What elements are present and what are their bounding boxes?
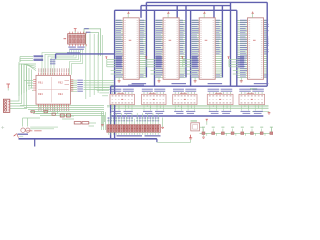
bus vertical right of B: [185, 6, 187, 78]
IC U3 left pin wires: [155, 20, 163, 22]
wire small parts cluster wires: [30, 111, 60, 113]
VCC small symbol above row: [206, 119, 208, 121]
IC U9 body: [207, 94, 233, 104]
wire verticals into bottom connector: [101, 112, 103, 130]
svg-text:FB4: FB4: [58, 93, 63, 96]
wire LED row line: [200, 132, 272, 134]
IC U9 designator text top: [215, 92, 222, 95]
IC U9 top pin wires: [209, 92, 211, 94]
IC U2 green stub pre-gnd: [111, 70, 116, 72]
IC U4 right pin wires: [215, 20, 222, 22]
IC U2 pin numbers right: [137, 19, 139, 22]
bus drop A: [140, 6, 142, 18]
bus vertical right of C: [221, 6, 223, 78]
IC U7 designator text top: [149, 92, 156, 95]
IC U2 pin numbers left: [124, 19, 126, 22]
IC U2 box: [123, 18, 139, 80]
IC U5 pin numbers right: [261, 19, 263, 22]
IC U3 labels left: [156, 19, 162, 22]
wire vertical bundle center: [85, 33, 87, 99]
net labels cluster top-left: [34, 55, 44, 57]
IC U8 top pin wires: [174, 92, 176, 94]
IC U3 power cluster lower-left: [145, 57, 147, 59]
IC U4 bold label block: [192, 56, 198, 57]
bus bottom: [19, 138, 157, 140]
IC U5 power cluster lower-left: [228, 57, 230, 59]
wire U1 bottom to lower area: [39, 107, 41, 110]
bus vertical group C: [190, 10, 192, 86]
GND left of connector: [101, 115, 103, 125]
ground right end of rails: [268, 111, 270, 114]
IC U4 green stub pre-gnd: [187, 70, 192, 72]
LED D1: [202, 132, 205, 135]
IC U5 pin numbers left: [249, 19, 251, 22]
green rails below middle IC row: [107, 104, 269, 106]
IC U3 labels right: [180, 19, 183, 22]
wire left horizontals to U1 left pins: [24, 80, 33, 82]
IC U7 body: [142, 94, 167, 104]
bus name label on alpha: [67, 52, 80, 53]
wires right of crystal: [30, 126, 58, 128]
wire bundle turns to middle IC row: [94, 87, 109, 89]
IC U6 pin numbers: [112, 95, 114, 98]
IC U3 designator mark: [169, 40, 172, 41]
IC U2 GND symbol bottom: [118, 77, 120, 81]
crystal Q1: [21, 128, 25, 132]
IC U5 GND symbol bottom: [240, 77, 242, 81]
IC U5 labels right: [264, 19, 268, 22]
wire k1 to row: [200, 126, 204, 128]
IC U1 right pin net labels: [77, 80, 83, 81]
resistor R2: [82, 122, 89, 124]
IC U6 top pin wires: [112, 92, 114, 94]
IC U8 body: [173, 94, 197, 104]
IC U4 labels right: [216, 19, 220, 22]
IC U4 power cluster lower-left: [181, 57, 183, 59]
IC U9 pin numbers: [209, 95, 211, 98]
IC U7 pin numbers: [143, 95, 145, 98]
crystal value text red: [26, 130, 32, 131]
LED D8: [270, 132, 273, 135]
IC U3 GND symbol bottom: [158, 77, 160, 81]
IC U1 top pins: [38, 73, 40, 76]
bus alpha end labels: [50, 59, 55, 60]
IC U10 labels below: [241, 111, 251, 112]
supply symbol left: [7, 84, 9, 88]
IC U5 bold label block: [238, 56, 244, 57]
IC U8 labels above: [173, 89, 184, 90]
LED D2: [212, 132, 215, 135]
IC U3 pin numbers right: [177, 19, 179, 22]
IC U2 labels right: [140, 19, 144, 22]
IC U5 value text below: [254, 83, 268, 84]
IC U3 box: [163, 18, 179, 80]
IC U2 labels left: [116, 19, 122, 22]
IC U9 labels above: [208, 89, 220, 90]
svg-text:FB3: FB3: [38, 93, 43, 96]
connector X1 cells top row: [108, 125, 110, 128]
IC U8 designator dot: [184, 99, 186, 100]
LED D5: [241, 132, 244, 135]
IC U1 right pins: [71, 79, 74, 81]
IC U3 bold label block: [156, 56, 162, 57]
IC U10 body: [239, 94, 265, 104]
IC U1 top pin labels: [37, 68, 40, 72]
IC U2 value text below: [132, 83, 147, 84]
IC U5 green stub pre-gnd: [233, 70, 238, 72]
LED D3: [221, 132, 224, 135]
connector X1 body: [107, 125, 161, 133]
capacitor cluster C1 C2: [60, 114, 64, 117]
LED D4: [231, 132, 234, 135]
small parts top cluster: [31, 111, 34, 113]
IC U1 bottom pin labels: [37, 107, 40, 111]
IC U5 designator mark: [253, 40, 256, 41]
relay K1 body: [191, 123, 200, 131]
wire J1 to bundle: [10, 64, 36, 101]
IC U5 labels left: [240, 19, 247, 22]
IC U7 labels below: [143, 111, 152, 112]
IC U4 value text below: [208, 83, 223, 84]
IC U8 designator text top: [180, 92, 187, 95]
IC U5 box: [248, 18, 264, 80]
IC U6 body: [110, 94, 135, 104]
green label under gamma right: [250, 88, 257, 90]
IC U1 body: [36, 75, 71, 104]
bus bottom stub down mid: [34, 139, 36, 147]
IC U7 designator dot: [153, 99, 155, 100]
IC U10 designator dot: [251, 99, 253, 100]
bus vertical group B: [154, 10, 156, 86]
IC U4 VCC symbol top: [203, 14, 205, 18]
IC U7 bottom pin wires: [143, 104, 145, 107]
IC U4 pin numbers left: [200, 19, 202, 22]
IC U10 designator text top: [247, 92, 254, 95]
bus vertical right of D: [266, 2, 268, 86]
net labels right of S1: [84, 28, 89, 29]
IC U9 designator dot: [219, 99, 221, 100]
dip switch S1 pins bottom: [69, 44, 71, 46]
bus drop B: [176, 6, 178, 18]
bus top line 0: [146, 1, 267, 3]
bus drop C: [213, 6, 215, 18]
wire left bundle verticals: [18, 62, 20, 96]
wire VCC to S1 top: [74, 31, 76, 33]
power flag bottom left: [13, 133, 16, 136]
dip switch S1 designator: [64, 38, 67, 39]
bus bottom end stub: [156, 139, 158, 142]
wire U1 right labels to bus area: [84, 80, 114, 82]
IC U1 left pins: [33, 79, 36, 81]
IC U6 designator dot: [121, 99, 123, 100]
connector X1 labels above: [108, 117, 110, 119]
IC U7 labels above: [142, 89, 153, 90]
ground at wire end: [190, 135, 192, 138]
relay K1 label: [191, 120, 198, 121]
bus gamma name label: [128, 85, 144, 86]
IC U10 bottom pin wires: [241, 104, 243, 107]
bus vertical right of A: [145, 2, 147, 77]
IC U8 pin numbers: [174, 95, 176, 98]
IC U7 top pin wires: [143, 92, 145, 94]
LED D7: [260, 132, 263, 135]
IC U1 interior right pin names: [65, 79, 70, 82]
dip switch S1 labels below: [68, 47, 76, 48]
power symbol above S1: [74, 29, 76, 32]
net label bottom left: [18, 134, 29, 135]
IC U10 pin numbers: [241, 95, 243, 98]
wire net from S1 area to right, upper: [84, 29, 101, 56]
IC U5 right pin wires: [264, 20, 267, 22]
wire LED row right riser: [271, 127, 273, 133]
IC U10 labels above: [239, 89, 251, 90]
dip switch S1 body: [68, 34, 86, 44]
IC U3 VCC symbol top: [167, 14, 169, 18]
bus top line 1: [141, 5, 231, 7]
IC U4 labels left: [192, 19, 198, 22]
IC U3 pin numbers left: [164, 19, 166, 22]
bus horizontal delta: [111, 115, 264, 117]
connector X1 cells bottom row: [108, 129, 110, 132]
GND right of connector: [162, 118, 164, 128]
connector X1 labels below: [117, 135, 143, 136]
IC U4 box: [199, 18, 215, 80]
wire cluster to blue labels top-left: [20, 56, 33, 58]
IC U10 top pin wires: [241, 92, 243, 94]
svg-text:FB1: FB1: [38, 81, 43, 84]
IC U6 labels below: [112, 111, 121, 112]
IC U3 green stub pre-gnd: [151, 70, 156, 72]
bus horizontal gamma: [111, 85, 268, 87]
bus alpha left drop: [55, 54, 57, 59]
IC U2 bold label block: [116, 56, 122, 57]
dip switch S1 pins top: [69, 32, 71, 34]
bus gamma left drop: [110, 86, 112, 139]
IC U5 VCC symbol top: [252, 14, 254, 18]
IC U6 designator text top: [117, 92, 124, 95]
IC U2 left pin wires: [115, 20, 123, 22]
IC U2 VCC symbol top: [127, 14, 129, 18]
IC U4 left pin wires: [191, 20, 199, 22]
wire horizontals lower-left flow: [20, 105, 104, 107]
IC U2 power cluster lower-left: [105, 57, 107, 59]
connector X1 bottom wires: [107, 132, 109, 135]
IC U1 bottom pins: [38, 104, 40, 107]
wire rail to GND right: [252, 111, 269, 113]
wire crystal cluster: [22, 118, 24, 127]
IC U6 labels above: [110, 89, 121, 90]
bus vertical extra right: [230, 2, 232, 86]
wire U1 right pins to labels: [71, 79, 78, 81]
connector X1 top wires: [107, 119, 109, 125]
wire net from S1 area to right, lower: [86, 32, 98, 56]
IC U2 right pin wires: [139, 20, 146, 22]
bus vertical group D: [236, 10, 238, 86]
LED D6: [251, 132, 254, 135]
IC U4 designator mark: [205, 40, 208, 41]
dip switch S1 cells: [69, 35, 71, 39]
bus horizontal alpha: [56, 53, 115, 55]
IC U4 GND symbol bottom: [194, 77, 196, 81]
bus top line 2: [115, 9, 237, 11]
connector J1: [3, 99, 9, 112]
wire vcc stub bottom right: [206, 121, 208, 125]
svg-text:FB2: FB2: [58, 81, 63, 84]
IC U9 labels below: [209, 111, 219, 112]
IC U3 right pin wires: [179, 20, 185, 22]
green bits near flag: [19, 135, 23, 137]
IC U1 quadrant cross: [51, 77, 53, 103]
ground under first LED: [203, 135, 205, 137]
IC U4 pin numbers right: [213, 19, 215, 22]
IC U8 labels below: [174, 111, 183, 112]
bus vertical main left: [114, 10, 116, 139]
origin cross mark: [1, 127, 4, 129]
IC U6 bottom pin wires: [112, 104, 114, 107]
IC U2 designator mark: [129, 40, 132, 41]
wire bundle S1 bottom to U1 top pins: [42, 50, 70, 75]
IC U9 bottom pin wires: [209, 104, 211, 107]
IC U8 bottom pin wires: [174, 104, 176, 107]
resistor R1: [74, 122, 81, 124]
IC U3 value text below: [172, 83, 187, 84]
wire bus end to GND: [157, 140, 191, 143]
IC U5 left pin wires: [238, 20, 248, 22]
